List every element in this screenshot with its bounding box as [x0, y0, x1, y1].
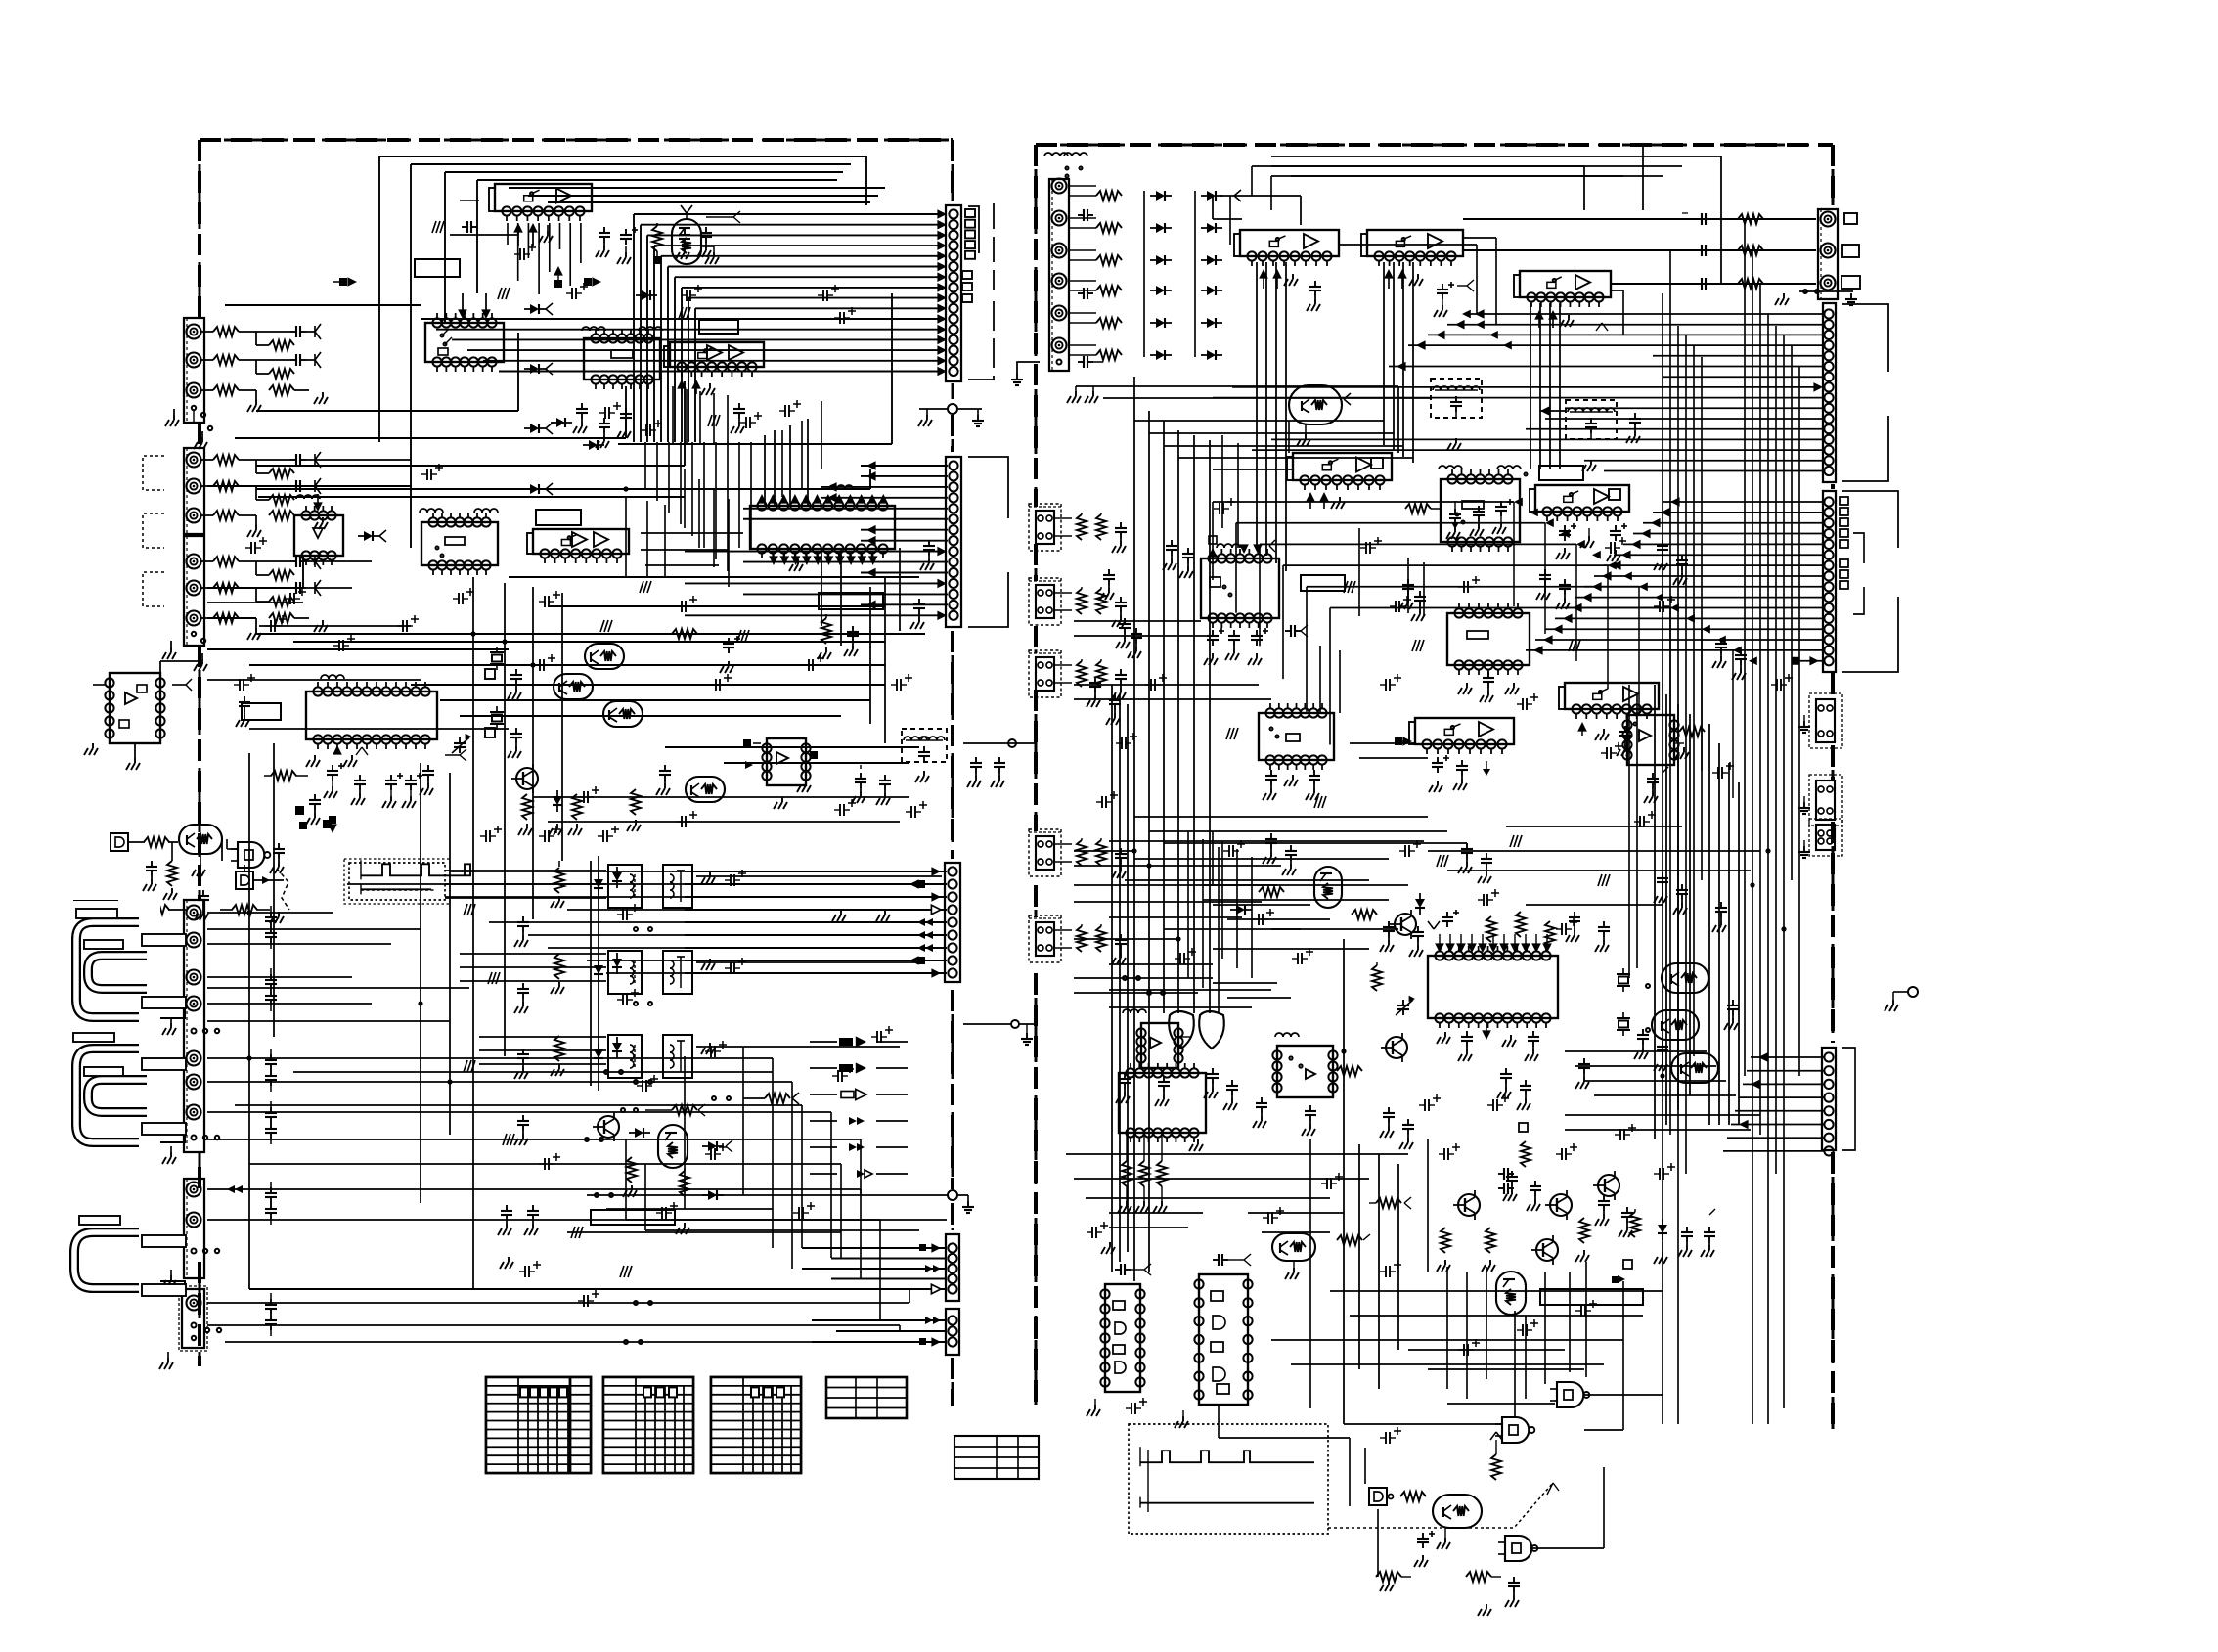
transistor Q502 oval — [1662, 963, 1708, 993]
legend arrow 2 — [839, 1062, 866, 1073]
capacitor pair C400 — [265, 906, 277, 949]
legend arrow 4 — [849, 1117, 865, 1125]
wire verts right5 — [1188, 831, 1219, 1013]
diode D143 — [594, 1044, 603, 1065]
wire verticals right3 — [1112, 685, 1128, 1272]
transistor Q513 — [1531, 1235, 1558, 1265]
diode D144 — [629, 1128, 650, 1138]
label box L403r — [142, 934, 186, 946]
wires CN553 ext — [1213, 502, 1670, 745]
IC511 body — [1409, 718, 1514, 754]
IC510 body — [1259, 703, 1334, 770]
ground node CN151 — [918, 404, 984, 426]
label box L101 — [415, 259, 460, 277]
connector CN154 body — [946, 1234, 959, 1301]
wire out 1 — [1463, 213, 1816, 225]
nand gate U522 — [1498, 1536, 1537, 1561]
ground Q515 — [1285, 1261, 1299, 1279]
label box L503 — [1540, 1289, 1643, 1305]
connector CN501 body — [1049, 179, 1069, 372]
top marks CN501 — [1044, 153, 1087, 178]
resistor R200 — [256, 332, 294, 350]
resistor R131 — [264, 771, 308, 781]
IC514 below — [1118, 1133, 1203, 1213]
diode D105 — [358, 530, 386, 542]
nand gate U521 — [1495, 1417, 1534, 1443]
capacitor C302 — [195, 890, 209, 920]
wire between blocks — [963, 739, 1035, 747]
IC504 body — [1287, 453, 1392, 490]
resistor R531 — [1372, 962, 1382, 991]
transistor Q105 — [511, 764, 538, 793]
capacitor C107 — [256, 580, 321, 596]
connector CN151 bracket — [968, 203, 994, 380]
IC505 body — [1441, 469, 1520, 552]
connector CN401 jack 2 — [187, 933, 201, 948]
capacitor C106 — [256, 554, 321, 569]
connector CN551 ground — [1775, 290, 1857, 305]
table T2 redo — [603, 1377, 693, 1473]
dotted bracket 2 — [143, 513, 164, 548]
legend arrow 5 — [849, 1143, 865, 1151]
ground CN401a — [162, 1017, 176, 1035]
resistor R104 — [201, 481, 256, 491]
capacitor C114 — [697, 211, 740, 257]
connector CN562 right — [1798, 819, 1842, 858]
pol cap C144 — [720, 636, 740, 673]
capacitor C104 — [256, 478, 321, 494]
cap cluster right mid — [1380, 910, 1610, 957]
connector CN102 jack 3 — [187, 509, 201, 523]
IC508 below — [1458, 672, 1519, 702]
wire from IC201 — [126, 661, 200, 770]
label box L406r — [84, 1067, 123, 1076]
IC511 below — [1429, 755, 1490, 792]
capacitor C151 — [514, 916, 529, 947]
arrow staircase CN553 — [1514, 498, 1757, 666]
connector CN401 jack 7 — [187, 1105, 201, 1120]
transistor Q505 oval — [1314, 867, 1342, 908]
IC201 small dip — [84, 673, 192, 755]
optocoupler PC102 — [608, 951, 715, 994]
double arrow CN402 — [227, 1185, 243, 1193]
big IC516 body — [1428, 946, 1558, 1028]
label box L402 — [84, 931, 127, 944]
wire right top frame — [1110, 145, 1721, 352]
table T3 — [711, 1377, 801, 1473]
resistor R142 — [551, 954, 564, 994]
diode D146 — [702, 1190, 724, 1200]
IC518 cap — [1115, 1264, 1151, 1275]
connector CN153 body — [945, 863, 960, 982]
connector CN402 jack 1 — [187, 1183, 201, 1197]
crystal X102 — [490, 706, 522, 758]
ground IC101 — [539, 225, 553, 243]
legend arrow 6 — [857, 1170, 872, 1178]
wire mesh bottom3 — [626, 1139, 947, 1230]
connector CN553 bracket — [1842, 491, 1898, 672]
wire chain dots — [595, 927, 652, 1305]
capacitor C131 pol — [324, 763, 344, 798]
right block dashed border right — [1832, 145, 1835, 1429]
connector CN103 jack 1 — [187, 555, 201, 569]
resistor R206 — [256, 561, 294, 580]
label box L501 — [1539, 466, 1583, 480]
wire fan to CN151 lower — [421, 314, 947, 376]
wire mesh bottom2 — [207, 1072, 900, 1342]
cap pair CN501 — [1078, 209, 1093, 299]
ground CN402 — [162, 1270, 176, 1287]
transistor Q507 — [1381, 1033, 1407, 1062]
mark IC503 — [1596, 323, 1608, 331]
cap C522 — [1446, 501, 1461, 539]
capacitor C133 — [306, 794, 321, 825]
wire mesh bottom — [207, 871, 909, 1342]
wire right rows 900 — [1506, 826, 1682, 905]
small mark boxes — [295, 669, 495, 828]
diode column D112 — [524, 363, 553, 375]
border overlay right L — [1034, 145, 1038, 1405]
wire gates net — [1310, 939, 1794, 1548]
IC519 cap — [1213, 1254, 1251, 1266]
capacitor C552 — [1505, 1577, 1520, 1607]
diode D141 — [594, 873, 603, 895]
IC110 body — [762, 738, 810, 785]
diode D142 — [594, 960, 603, 981]
wires jacks right — [315, 460, 411, 588]
wires CN155 — [812, 1317, 947, 1347]
table T3 redo — [711, 1377, 801, 1473]
label box L411r — [142, 1284, 186, 1296]
dotted outline CN502 — [1029, 504, 1061, 551]
transistor Q301 oval — [179, 825, 222, 854]
connector CN401 jack 3 — [187, 970, 201, 985]
capacitor C161 — [967, 757, 982, 787]
connector CN403 jack 1 — [187, 1296, 201, 1311]
wires CN152 — [685, 461, 948, 620]
IC510 below — [1263, 770, 1320, 800]
wire mesh right top2 — [1074, 421, 1413, 685]
ground G301 — [128, 910, 142, 931]
optocoupler PC103 — [608, 1035, 715, 1078]
pol cap marks right — [1175, 498, 1675, 964]
ground G108 — [247, 613, 328, 640]
resistor R552 — [1490, 1432, 1502, 1480]
AV cable 2 inner — [88, 1080, 147, 1112]
wire left rows 700 — [207, 680, 509, 729]
left block dashed border top — [200, 139, 953, 142]
transistor Q108 oval — [658, 1125, 688, 1168]
IC109 marks — [306, 675, 368, 767]
IC110 marks — [743, 739, 818, 809]
ground FL502 — [1582, 460, 1596, 471]
wire verticals top2 — [765, 419, 808, 506]
wires CN154 — [802, 1243, 947, 1294]
IC507 below — [1204, 625, 1308, 665]
resistor R143 — [551, 1036, 564, 1076]
transistor Q102 oval — [585, 644, 624, 669]
trimmer C136 — [452, 734, 471, 753]
capacitor C143 — [852, 765, 866, 803]
capacitor C101 — [256, 352, 321, 368]
filter FL501 — [1431, 379, 1482, 418]
capacitor C152 — [514, 983, 529, 1013]
resistor R148 — [712, 1093, 799, 1104]
right block dashed border top — [1036, 144, 1833, 147]
crystal X501 — [1617, 968, 1650, 992]
small square mark1 — [1612, 1260, 1632, 1283]
resistor R101 — [201, 355, 256, 365]
IC503 arrows — [1534, 310, 1574, 328]
AV cable group 1 — [67, 915, 150, 986]
wire right rows 1200 — [1066, 1154, 1408, 1198]
wire bundle right top — [1257, 262, 1560, 606]
capacitor C543 — [1498, 1168, 1514, 1194]
mark C512 — [1457, 280, 1474, 291]
connector CN553 body — [1823, 491, 1836, 672]
IC102 input arrows — [458, 293, 491, 319]
capacitor C501 — [1078, 356, 1103, 368]
ground node CN153 — [870, 1190, 974, 1213]
wires CN553 — [1526, 497, 1825, 665]
junction dots right — [1131, 848, 1786, 1078]
IC516 bottom marks — [1437, 1022, 1539, 1061]
connector CN102 jack 1 — [187, 453, 201, 468]
connector CN502 2x2 — [1029, 507, 1072, 544]
connector CN551 body — [1818, 209, 1838, 299]
connector CN403 body — [179, 1286, 207, 1351]
ground near CN103 — [162, 641, 207, 671]
connector CN102 jack 2 — [187, 479, 201, 494]
IC507 body — [1201, 549, 1279, 628]
IC104 bottom arrows — [677, 380, 715, 395]
dashed leader — [277, 869, 289, 910]
IC501 body — [1234, 230, 1339, 266]
resistors near CN505 — [1077, 838, 1127, 878]
transistor Q511 — [1545, 1190, 1572, 1220]
capacitor C100 — [256, 324, 321, 339]
table T1 — [486, 1377, 591, 1473]
node circle right — [1885, 987, 1918, 1011]
photo device D301 — [111, 833, 145, 851]
wire right mid verts — [1213, 831, 1252, 978]
resistor R545 — [1521, 1141, 1530, 1167]
label box L405r — [73, 1033, 114, 1042]
connector CN101 jack 3 — [187, 383, 201, 398]
label box L201 — [242, 703, 281, 720]
resistor R145 — [623, 1157, 637, 1197]
wire top rows2 — [509, 188, 885, 202]
IC101 pin drops — [508, 223, 581, 294]
connector CN103 body — [184, 536, 204, 646]
wires CN552 ext — [1339, 238, 1623, 335]
border overlay left L — [198, 140, 201, 1366]
resistor R207 — [256, 588, 294, 606]
connector CN401 jack 6 — [187, 1075, 201, 1090]
resistor R546 — [1369, 1197, 1411, 1209]
transistor Q514 oval — [1496, 1272, 1526, 1315]
label box L408r — [142, 1123, 186, 1135]
resistor R111 — [652, 223, 662, 264]
capacitor C542 — [1701, 1209, 1715, 1257]
diode D541 — [1654, 1219, 1667, 1264]
wire bus right2 — [1565, 724, 1739, 1125]
capacitor C532 — [1724, 1000, 1739, 1030]
connector CN403 pins — [192, 1323, 222, 1341]
resistor R547 — [1337, 1234, 1370, 1245]
left mid pmarks — [245, 537, 560, 607]
resistor R107 — [201, 583, 256, 593]
resistor R542 — [1482, 1228, 1495, 1272]
wire fan to CN151 — [634, 209, 947, 442]
connector CN103 pins — [192, 632, 205, 643]
resistor R301 — [144, 837, 178, 847]
diode column D111 — [524, 303, 553, 315]
pmarks final — [519, 674, 1793, 1444]
IC502 body — [1361, 230, 1463, 266]
trimmer C531 — [1396, 996, 1415, 1015]
nand gate U520 — [1550, 1382, 1589, 1407]
AV cable 2 outer — [76, 1049, 139, 1142]
connector CN560 right — [1798, 693, 1842, 748]
connector CN504 2x2 — [1029, 653, 1072, 691]
capacitor C112 pol — [617, 227, 638, 264]
label box L104 — [819, 593, 883, 609]
capacitor C135 — [420, 765, 434, 795]
capacitor C111 — [596, 227, 610, 257]
hatch marks mid — [600, 581, 749, 642]
IC504 arrows — [1306, 492, 1345, 509]
transistor Q506 — [1390, 910, 1416, 939]
node link mid — [963, 1020, 1036, 1045]
wire verticals top — [645, 401, 821, 571]
transistor Q510 — [1453, 1190, 1480, 1220]
diode D131 — [328, 816, 337, 833]
label box L502 — [1301, 575, 1345, 591]
wire out 2 — [1463, 245, 1816, 256]
buffer U523 — [1369, 1488, 1394, 1505]
capacitor C511 — [1307, 281, 1321, 311]
wires CN554 — [1723, 1052, 1825, 1151]
wire mid horiz2 — [641, 533, 743, 565]
wire verts gates2 — [1447, 1262, 1586, 1399]
IC517 small — [1272, 1046, 1337, 1097]
capacitor pair C401 — [265, 968, 277, 1011]
connector CN552 body — [1823, 303, 1836, 482]
AV cable 1 inner — [88, 956, 147, 989]
IC108 bottom arrows — [769, 554, 877, 571]
cable area whiteout — [39, 901, 160, 1343]
caps row top — [573, 403, 745, 448]
connector CN101 body — [184, 318, 204, 423]
capacitor C155 — [498, 1205, 512, 1235]
diode column D113 — [524, 423, 553, 434]
connector CN551 squares — [1841, 213, 1860, 289]
IC513 marks — [1116, 1009, 1191, 1106]
IC519 gnd — [1175, 1410, 1188, 1428]
grounds below CN501 — [1067, 386, 1098, 403]
resistor R134 — [672, 629, 709, 639]
wire mesh right lower2 — [1074, 621, 1467, 998]
capacitor C141 — [656, 765, 671, 795]
wire bottom right extra — [1219, 1105, 1438, 1506]
hatch marks right — [1226, 581, 1610, 886]
transistor Q103 oval — [554, 674, 593, 699]
OR gate U515a — [1169, 1011, 1194, 1049]
resistor R132 — [518, 794, 532, 835]
connector CN401 body — [184, 900, 204, 1152]
wire gate stubs — [1378, 1272, 1623, 1577]
small square mark2 — [1519, 1123, 1528, 1132]
pol cap C115 — [460, 201, 479, 233]
resistor R100 — [201, 327, 256, 336]
wire verticals right4 — [1655, 685, 1690, 1139]
label box L406 — [142, 1130, 185, 1142]
grounds final — [500, 910, 1491, 1616]
resistor R203 — [256, 460, 294, 478]
photo device D302 — [236, 865, 284, 889]
wire right top3 — [1271, 166, 1682, 176]
wires CN552 — [1213, 309, 1825, 470]
resistor R303 — [137, 905, 186, 915]
IC506 body — [1530, 485, 1629, 521]
connector CN401 pins — [192, 1029, 220, 1140]
dotted outline CN504 — [1029, 650, 1061, 697]
resistor R544 — [1630, 1209, 1640, 1237]
wire left rows 1230 — [567, 1195, 870, 1232]
dotted outline CN505 — [1029, 829, 1061, 876]
wire mesh right mid4 — [1109, 841, 1424, 949]
ground G105 — [247, 511, 328, 537]
resistor R108 — [201, 613, 256, 623]
diode D102 — [554, 266, 563, 288]
filter FL101 — [902, 729, 947, 782]
IC509 body — [1559, 683, 1659, 719]
wire left verts 1100 — [685, 1047, 743, 1209]
ground G102 — [247, 385, 328, 412]
AV cable 3 — [74, 1232, 139, 1288]
AV cable group 4 — [58, 1240, 149, 1330]
border overlay right R — [1831, 145, 1835, 1429]
label box L401r — [76, 909, 117, 918]
ground CN403 — [159, 1352, 173, 1369]
transistor Q501 oval — [1289, 385, 1351, 446]
resistor R105 — [201, 511, 256, 520]
connector CN103 jack 3 — [187, 611, 201, 626]
resistor R543 — [1575, 1218, 1589, 1262]
AV cable group 2 — [62, 1000, 149, 1082]
wire verticals top3 — [673, 386, 728, 445]
IC505 marks — [1439, 466, 1528, 476]
capacitor C113 — [676, 229, 690, 259]
IC106 body — [421, 513, 498, 575]
wire stair drops — [1514, 502, 1733, 798]
wire mesh mid2 — [207, 548, 919, 763]
IC519 dip — [1194, 1274, 1252, 1405]
ground FL501 — [1447, 438, 1461, 450]
dotted outline CN506 — [1029, 915, 1061, 962]
AV cable group 3 — [48, 1095, 149, 1205]
capacitor C301 — [143, 861, 157, 891]
wire frame bottom — [618, 293, 892, 444]
tone caps right block2 — [1204, 833, 1727, 1149]
label box L404r — [142, 997, 186, 1008]
capacitor C142 — [876, 775, 891, 805]
resistors near CN503 — [1077, 587, 1127, 627]
capacitor pair C405 — [265, 1293, 277, 1336]
table T1 redo — [486, 1377, 591, 1473]
IC516 top arrows — [1428, 921, 1552, 953]
